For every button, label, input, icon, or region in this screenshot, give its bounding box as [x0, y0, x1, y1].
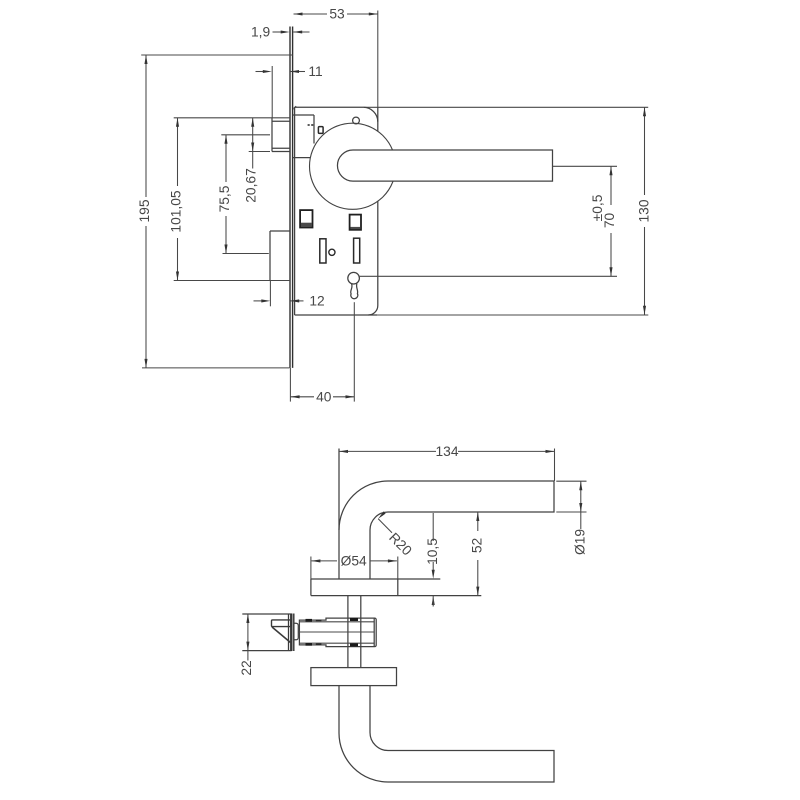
- 75,5 bottom extension line: [223, 253, 269, 255]
- faceplate (side view): [291, 614, 293, 652]
- lower neck left edge: [338, 686, 340, 733]
- faceplate (door edge, two vertical lines): [289, 27, 291, 368]
- slot left: [320, 239, 326, 263]
- dimension 40: [291, 396, 314, 398]
- dimension Ø19: [580, 481, 582, 529]
- upper handle outline (side view): [339, 481, 554, 579]
- 134 left extension + upper neck left edge: [338, 449, 340, 580]
- dimension 52: [477, 512, 479, 531]
- small circle: [329, 249, 335, 255]
- svg-text:±0,5: ±0,5: [590, 194, 605, 221]
- latch wedge bottom line + 22 extension: [242, 650, 291, 652]
- lock case top-right corner arc: [363, 107, 378, 122]
- housing clips: [306, 619, 313, 622]
- dimension Ø54: [311, 560, 337, 562]
- svg-text:134: 134: [435, 444, 458, 459]
- lower rose (side view): [311, 668, 397, 686]
- svg-text:130: 130: [636, 199, 651, 222]
- dimension 130: [644, 107, 646, 195]
- Ø54 extension lines: [310, 557, 312, 580]
- latch wedge ramp diagonal: [272, 627, 291, 643]
- case inner left horizontal: [293, 157, 311, 159]
- keyhole axis extension (70 bottom): [360, 275, 617, 277]
- spindle upper: [347, 596, 349, 668]
- dimension 12: [254, 300, 263, 302]
- svg-text:11: 11: [308, 64, 322, 79]
- lower handle outline (side view): [339, 686, 554, 782]
- rose circle: [310, 123, 396, 209]
- lock case bottom-right corner arc: [368, 306, 378, 316]
- dimension 134: [339, 450, 436, 452]
- svg-text:20,67: 20,67: [244, 168, 259, 203]
- dimension 75,5: [225, 135, 227, 182]
- 12 extension line: [269, 281, 271, 307]
- svg-text:1,9: 1,9: [251, 25, 271, 40]
- follower square right: [350, 215, 361, 230]
- housing inner lines: [299, 621, 374, 623]
- dimension 53: [294, 13, 328, 15]
- keyhole centre line: [353, 302, 355, 401]
- TOP DRAWING: [137, 7, 652, 405]
- R20 leader and label: [377, 511, 386, 520]
- lock case left edge: [294, 107, 296, 315]
- lock case bottom edge + 130 bottom extension: [295, 314, 377, 316]
- svg-text:R20: R20: [386, 530, 415, 559]
- latch bulge behind faceplate: [294, 623, 299, 640]
- Ø19 extension lines: [556, 480, 586, 482]
- latch bottom short extension (20,67 bottom ref): [249, 151, 270, 153]
- 11 extension line (latch left face): [271, 66, 273, 118]
- LOWER DRAWING: [239, 444, 587, 782]
- latch housing outline: [299, 618, 376, 647]
- case inner top-left horizontal: [293, 114, 314, 116]
- keyhole: [348, 272, 360, 284]
- lock case right edge (also 53 extension), interrupted by rose: [377, 11, 379, 108]
- tiny marks: [308, 124, 310, 126]
- upper rose bottom edge + 52 extension: [311, 595, 481, 597]
- dimension 195: [145, 55, 147, 197]
- follower square left: [300, 210, 312, 227]
- housing end cap line: [373, 618, 375, 647]
- svg-text:52: 52: [470, 538, 485, 553]
- lock case top edge + 130 top extension: [295, 106, 364, 108]
- svg-text:53: 53: [329, 7, 345, 22]
- slot right: [354, 238, 360, 263]
- handle axis extension (70 top): [553, 165, 617, 167]
- deadbolt: [270, 230, 290, 232]
- upper rose (side view) top edge + 10,5 extension: [311, 578, 440, 580]
- dimension 70: [610, 166, 612, 205]
- dimension 101,05: [177, 118, 179, 186]
- latch wedge top line + 22 extension: [242, 613, 291, 615]
- svg-text:22: 22: [239, 660, 254, 675]
- dimension 11: [256, 71, 264, 73]
- tiny corner tick top-left of case: [294, 106, 296, 109]
- 134 right extension: [554, 449, 556, 482]
- faceplate bottom extension line (195 bottom): [142, 367, 290, 369]
- latch bolt (top line is 101,05 extension): [174, 117, 290, 119]
- deadbolt bottom + 101,05 bottom extension: [174, 280, 290, 282]
- dimension 22: [247, 614, 249, 651]
- svg-text:10,5: 10,5: [425, 538, 440, 565]
- svg-text:75,5: 75,5: [217, 185, 232, 212]
- handle lever (front view stadium): [337, 150, 552, 181]
- case inner top-left vertical: [313, 115, 315, 144]
- housing mid line: [298, 631, 374, 633]
- latch wedge window: [272, 620, 291, 627]
- screw hole circle on rose top: [353, 117, 360, 124]
- latch axis extension line (75,5 top ref): [221, 134, 270, 136]
- svg-text:195: 195: [137, 199, 152, 222]
- svg-text:Ø54: Ø54: [341, 553, 367, 568]
- 40 left extension: [289, 368, 291, 402]
- dimension 10,5: [432, 513, 434, 541]
- dimension 20,67: [252, 118, 254, 169]
- latch wedge right edges: [288, 615, 290, 651]
- svg-text:12: 12: [309, 293, 324, 308]
- svg-text:101,05: 101,05: [168, 190, 183, 233]
- svg-text:40: 40: [316, 389, 332, 404]
- faceplate top extension line (195 top): [141, 54, 292, 56]
- upper rose sides: [310, 579, 312, 596]
- small rectangle detail: [318, 127, 323, 134]
- svg-text:Ø19: Ø19: [573, 529, 588, 555]
